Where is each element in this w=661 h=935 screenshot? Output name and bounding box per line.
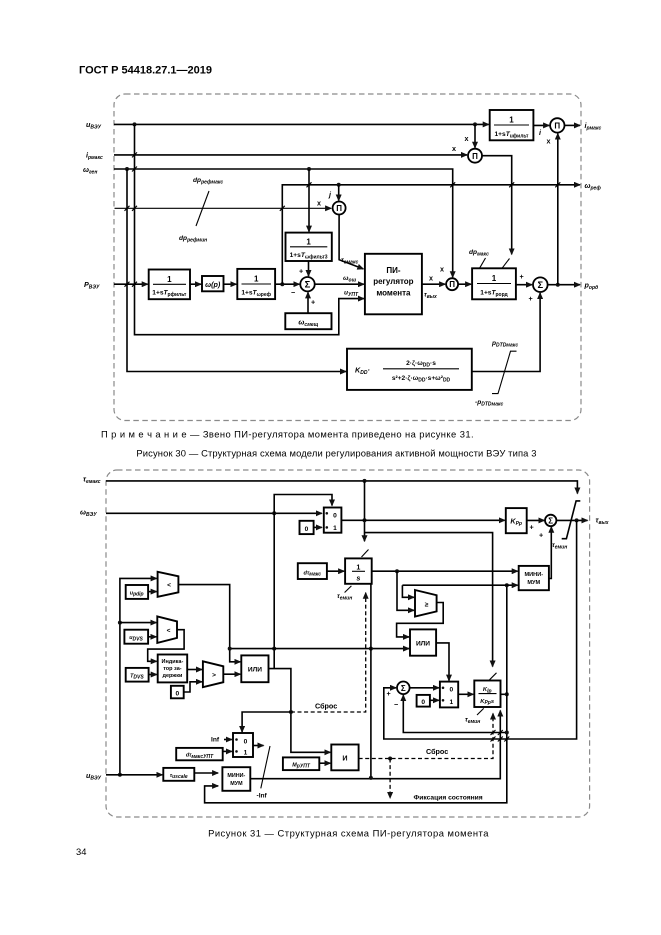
- figure 31 dashed border: [106, 470, 590, 817]
- svg-text:регулятор: регулятор: [373, 277, 413, 286]
- svg-text:Фиксация состояния: Фиксация состояния: [414, 795, 483, 802]
- svg-text:0: 0: [305, 526, 309, 533]
- block C omega ref filter: [237, 269, 275, 299]
- box dtau_max: [298, 563, 327, 579]
- svg-text:Σ: Σ: [305, 278, 311, 289]
- svg-text:1: 1: [492, 274, 497, 283]
- svg-text:П: П: [554, 122, 560, 131]
- svg-text:ω(p): ω(p): [205, 280, 221, 289]
- wire T1 out down to OR1 in1: [178, 585, 240, 662]
- wire sum1 to PI in2: [315, 283, 364, 285]
- svg-text:+: +: [529, 294, 533, 303]
- svg-text:Рисунок 31 — Структурная схема: Рисунок 31 — Структурная схема ПИ-регуля…: [208, 828, 489, 839]
- block MIN2: [222, 767, 250, 791]
- annotation dp_ref slash: [196, 191, 209, 226]
- junction tau_emax / v364: [363, 479, 367, 483]
- wire Inf to S3 port0: [224, 739, 232, 741]
- wire T2 out wrap to delay in1: [148, 630, 184, 662]
- svg-text:uВЭУ: uВЭУ: [86, 771, 102, 782]
- svg-text:x: x: [465, 134, 469, 143]
- junction line648 / v371: [369, 647, 373, 651]
- wire T_DVS to delay in2: [149, 674, 157, 676]
- wire S1 select control: [274, 495, 332, 514]
- junction dashed branch: [388, 757, 392, 761]
- svg-text:1: 1: [509, 116, 514, 125]
- svg-text:0: 0: [421, 699, 425, 706]
- wire v364 tau_emax down to integrator limit: [364, 481, 366, 541]
- svg-text:>: >: [212, 672, 216, 679]
- wire omega filter feed down: [308, 169, 310, 232]
- wire D out to sum1: [308, 261, 310, 276]
- wire S3 out annotation: [253, 745, 264, 747]
- svg-text:τвых: τвых: [424, 292, 437, 300]
- annotation output limiter slash: [562, 501, 581, 539]
- block integrator: [345, 558, 372, 583]
- wire Kip out join feedback vertical: [501, 693, 507, 695]
- wire branch to Kip upper limit: [365, 533, 493, 667]
- svg-text:ИЛИ: ИЛИ: [248, 667, 262, 674]
- svg-text:1: 1: [244, 750, 248, 757]
- block G p_ord lag: [472, 268, 516, 299]
- svg-text:+: +: [387, 689, 391, 698]
- svg-text:dpмакс: dpмакс: [469, 249, 489, 258]
- box const0b: [300, 521, 314, 534]
- wire omega_gen horizontal and down to PI4: [114, 169, 453, 277]
- wire omega_ref up and right to border: [282, 185, 580, 284]
- wire S1 out to KPp: [341, 519, 504, 521]
- svg-text:ωген: ωген: [83, 165, 97, 176]
- svg-text:-Inf: -Inf: [257, 793, 268, 800]
- svg-text:≥: ≥: [425, 601, 429, 608]
- junction v506 sum3 line: [505, 731, 509, 735]
- svg-text:держки: держки: [162, 673, 182, 679]
- wire MIN2 out to Kip lower input: [250, 711, 500, 779]
- svg-text:+: +: [311, 298, 315, 307]
- wire E up to sum1: [307, 292, 309, 313]
- wire PI out to PI4: [422, 283, 445, 285]
- annotation dp_max slash: [480, 258, 486, 268]
- wire omega_VEU into S1: [106, 512, 322, 514]
- svg-text:<: <: [167, 628, 171, 635]
- wire H to PI1: [533, 124, 549, 126]
- wire dp ramp thin line into PI3: [115, 207, 332, 209]
- wire reset solid to S3 select: [242, 712, 291, 732]
- block H voltage filter: [490, 110, 534, 140]
- multiplier PI2: [468, 149, 482, 163]
- junction p_ord feedback: [556, 283, 560, 287]
- block OR1: [241, 655, 268, 682]
- box M_pUVRT: [283, 757, 319, 770]
- wire line648 to OR2 in2: [230, 648, 409, 650]
- svg-text:τемин: τемин: [337, 593, 352, 601]
- block KDD drive train damping: [347, 349, 472, 390]
- block B omega(p) lookup: [202, 276, 224, 291]
- junction u/PI2: [473, 122, 477, 126]
- box const0a: [171, 686, 184, 699]
- wire B to C: [224, 283, 237, 285]
- wire const0c to S2 port1: [430, 699, 439, 701]
- svg-text:П: П: [449, 280, 455, 289]
- wire vb to T4 in1: [402, 585, 414, 597]
- svg-text:pDTDмакс: pDTDмакс: [491, 340, 518, 349]
- block delay indicator: [158, 655, 188, 683]
- svg-text:момента: момента: [376, 289, 411, 298]
- svg-text:τuscale: τuscale: [170, 773, 188, 780]
- wire v274 down to OR1 output line: [273, 513, 275, 668]
- junction v364 / S1 out: [363, 518, 367, 522]
- wire PI2 out down rate limit: [482, 156, 512, 255]
- junction omega/filter: [307, 167, 311, 171]
- svg-text:1: 1: [167, 275, 172, 284]
- svg-text:ωош: ωош: [343, 275, 357, 283]
- wire p_ord feedback up to PI1: [557, 134, 559, 285]
- annotation rate slash right: [502, 259, 510, 269]
- summator sum2: [533, 277, 548, 292]
- junction u vertical / T2: [118, 621, 122, 625]
- svg-text:ωреф: ωреф: [585, 181, 602, 192]
- wire KPp to sum4: [527, 519, 545, 521]
- svg-text:Σ: Σ: [401, 684, 406, 693]
- junction omega/v1: [125, 167, 129, 171]
- svg-text:1: 1: [333, 525, 337, 532]
- svg-text:dpрефмин: dpрефмин: [179, 235, 207, 244]
- selector S1: [324, 508, 342, 533]
- wire v371 integrator state down: [370, 584, 372, 778]
- wire G to sum2: [516, 284, 532, 286]
- svg-text:Сброс: Сброс: [315, 702, 337, 711]
- wire v2 u down to u_UPT into PI: [135, 124, 364, 334]
- svg-text:Inf: Inf: [211, 737, 220, 744]
- svg-text:uУПТ: uУПТ: [344, 290, 359, 298]
- svg-text:МУМ: МУМ: [527, 580, 540, 586]
- annotation DTD limit slash: [492, 351, 517, 393]
- wire i_pmax horizontal: [114, 154, 467, 156]
- svg-text:-pDTDмакс: -pDTDмакс: [475, 399, 504, 408]
- wire tau_uscale to MIN2 in1: [194, 772, 218, 774]
- block MIN1: [519, 566, 549, 590]
- box const0c: [417, 695, 430, 707]
- svg-text:1: 1: [356, 563, 360, 572]
- svg-text:П: П: [336, 204, 342, 213]
- wire u vertical up from u line: [120, 578, 157, 774]
- multiplier PI4: [446, 278, 458, 290]
- figure 30 dashed border: [114, 94, 581, 421]
- hop marks on omega_ref line: [307, 182, 561, 187]
- wire PI3 out diagonal into PI in1: [339, 215, 363, 269]
- svg-text:+: +: [299, 267, 303, 276]
- wire u_VEU line to tau_uscale: [106, 774, 162, 776]
- comparator T4: [415, 590, 437, 617]
- svg-text:ИЛИ: ИЛИ: [416, 640, 430, 647]
- selector S2: [440, 682, 458, 708]
- wire integrator out to MIN1 in1: [372, 570, 518, 572]
- wire PI4 to G: [458, 283, 471, 285]
- block OR2: [410, 629, 436, 655]
- svg-text:И: И: [342, 753, 347, 762]
- svg-text:dpрефмакс: dpрефмакс: [193, 177, 223, 186]
- svg-text:iрмакс: iрмакс: [86, 151, 103, 162]
- summator sum3: [397, 682, 410, 695]
- wire KDD out to sum2: [472, 293, 540, 372]
- svg-text:j: j: [328, 190, 332, 199]
- svg-text:−: −: [394, 700, 398, 709]
- annotation integrator bottom slash: [345, 586, 352, 593]
- junction omega_ref tap: [280, 282, 284, 286]
- block PI torque controller: [365, 254, 422, 314]
- svg-text:x: x: [429, 274, 433, 283]
- junction u/v2: [133, 122, 137, 126]
- block A power filter: [149, 270, 190, 300]
- wire sum4 out to border: [556, 519, 587, 521]
- svg-text:Σ: Σ: [537, 279, 543, 290]
- wire sum3 to S2: [410, 687, 439, 689]
- svg-text:pорд: pорд: [584, 281, 599, 292]
- junction OR1 out / reset line: [289, 710, 293, 714]
- wire integral feedback into sum3 minus: [403, 695, 507, 732]
- summator sum4: [545, 515, 556, 526]
- wire u_VEU horizontal: [114, 123, 489, 125]
- junction tau_out feedback: [575, 518, 579, 522]
- annotation Kip bottom slash: [477, 708, 484, 715]
- comparator T2: [157, 616, 177, 643]
- wire MIN1 out up to sum4: [549, 527, 551, 579]
- multiplier PI1: [550, 118, 564, 132]
- wire u_DVS to T2: [148, 636, 156, 638]
- block KPp: [506, 508, 527, 533]
- box T_DVS: [126, 668, 149, 682]
- svg-text:τемин: τемин: [552, 542, 567, 550]
- wire integral state vertical and bottom loop to MIN2: [205, 585, 507, 803]
- svg-text:П: П: [472, 152, 478, 161]
- wire sum2 out to border: [548, 284, 580, 286]
- svg-text:x: x: [440, 265, 444, 274]
- svg-text:0: 0: [449, 687, 453, 694]
- multiplier PI3: [333, 202, 346, 215]
- svg-text:МУМ: МУМ: [230, 781, 243, 787]
- svg-text:+: +: [530, 523, 534, 532]
- svg-text:ПИ-: ПИ-: [386, 266, 401, 275]
- junction omega_ref/PI3: [337, 183, 341, 187]
- svg-text:τвых: τвых: [596, 516, 609, 527]
- junction u line / vertical: [118, 773, 122, 777]
- wire tau_out feedback down left up into sum3: [384, 520, 577, 739]
- annotation integrator top slash: [362, 550, 369, 558]
- hop marks lower feedback crossings: [491, 730, 510, 742]
- junction integrator out: [395, 569, 399, 573]
- svg-text:+: +: [520, 272, 524, 281]
- svg-text:1: 1: [254, 275, 259, 284]
- svg-text:ГОСТ Р 54418.27.1—2019: ГОСТ Р 54418.27.1—2019: [79, 65, 212, 77]
- svg-text:0: 0: [244, 739, 248, 746]
- svg-text:Рисунок 30 — Структурная схема: Рисунок 30 — Структурная схема модели ре…: [136, 448, 536, 459]
- annotation ramp slash -Inf: [261, 746, 270, 788]
- wire tau_emax line to output limiter: [106, 481, 577, 494]
- annotation Kip top slash: [490, 673, 497, 680]
- svg-text:s: s: [356, 574, 360, 583]
- wire v1 omega down to KDD: [127, 169, 346, 372]
- svg-text:−: −: [291, 288, 295, 297]
- wire M_pUVRT to AND in2: [319, 762, 330, 764]
- svg-text:PВЭУ: PВЭУ: [84, 280, 100, 291]
- wire AND out dashed to Kip lower limit: [359, 714, 493, 759]
- wire PI2 top feed: [474, 124, 476, 147]
- junction v274 / line648: [272, 647, 276, 651]
- svg-text:тор за-: тор за-: [163, 666, 182, 672]
- wire S2 out to Kip block: [458, 693, 473, 695]
- hop marks on v1 v2 crossings: [125, 152, 285, 286]
- wire T4 out wrap to OR2 in1: [397, 603, 444, 637]
- wire reset dashed to integrator: [291, 593, 366, 712]
- block AND: [331, 745, 358, 771]
- svg-text:<: <: [167, 582, 171, 589]
- wire T3 out to OR1 in2: [223, 673, 240, 675]
- svg-text:ωВЭУ: ωВЭУ: [80, 508, 97, 519]
- svg-text:34: 34: [76, 846, 86, 857]
- box u_DVS: [124, 630, 148, 644]
- svg-text:iрмакс: iрмакс: [585, 121, 602, 132]
- svg-text:0: 0: [175, 690, 179, 697]
- wire P_VEU into block A: [114, 283, 148, 285]
- svg-text:1: 1: [306, 238, 311, 247]
- comparator T1: [158, 572, 179, 597]
- wire va to T4 in2: [397, 571, 414, 610]
- svg-text:τемин: τемин: [465, 717, 480, 725]
- junction T1 vert / line648: [228, 647, 232, 651]
- svg-text:МИНИ-: МИНИ-: [524, 572, 543, 578]
- wire dashed freeze branch down: [389, 759, 391, 799]
- svg-text:τемакс: τемакс: [341, 257, 358, 265]
- wire line585 to MIN1 in2: [402, 584, 517, 586]
- selector S3: [233, 733, 253, 757]
- wire PI1 out to border: [565, 124, 581, 126]
- junction omega / v274: [272, 511, 276, 515]
- svg-text:x: x: [452, 144, 456, 153]
- svg-text:+: +: [539, 531, 543, 540]
- block D omega filter: [286, 233, 332, 261]
- junction v371 / MIN2 out: [369, 776, 373, 780]
- box dtau_maxUVRT: [176, 748, 223, 760]
- svg-text:Σ: Σ: [548, 516, 553, 525]
- summator sum1: [300, 277, 314, 291]
- wire A to B: [190, 283, 201, 285]
- wire dtau_max to integrator: [327, 570, 344, 572]
- wire delay out to T3: [187, 669, 202, 671]
- svg-text:МИНИ-: МИНИ-: [227, 773, 245, 779]
- svg-text:Сброс: Сброс: [426, 747, 448, 756]
- svg-text:x: x: [547, 137, 551, 146]
- wire u_pdip to T1: [148, 591, 157, 593]
- wire OR2 out to S2 select: [436, 643, 449, 681]
- svg-text:0: 0: [333, 513, 337, 520]
- wire C to sum1: [275, 283, 299, 285]
- svg-text:Индика-: Индика-: [162, 659, 184, 665]
- wire OR1 out down to AND in1: [269, 669, 331, 753]
- junction Kip out: [505, 692, 509, 696]
- junction v506 top: [505, 583, 509, 587]
- wire u vertical branch to T2 in1: [120, 622, 156, 624]
- wire const0b to S1 port1: [314, 526, 322, 528]
- wire PI3 top feed: [338, 185, 340, 201]
- svg-text:П р и м е ч а н и е — Звено П: П р и м е ч а н и е — Звено ПИ-регулятор…: [101, 429, 474, 440]
- wire dtau_maxUVRT to S3 port1: [223, 750, 232, 752]
- svg-text:1: 1: [449, 699, 453, 706]
- block Kip integrator gain: [474, 681, 500, 708]
- wire const0a to T3 in2: [184, 682, 202, 692]
- svg-text:i: i: [539, 128, 542, 137]
- comparator T3: [203, 661, 223, 687]
- svg-text:uВЭУ: uВЭУ: [86, 120, 102, 131]
- svg-text:x: x: [317, 199, 321, 208]
- box tau_uscale: [163, 768, 194, 781]
- block E omega offset: [285, 313, 331, 329]
- svg-text:τемакс: τемакс: [83, 475, 101, 486]
- box u_pdip: [126, 585, 148, 599]
